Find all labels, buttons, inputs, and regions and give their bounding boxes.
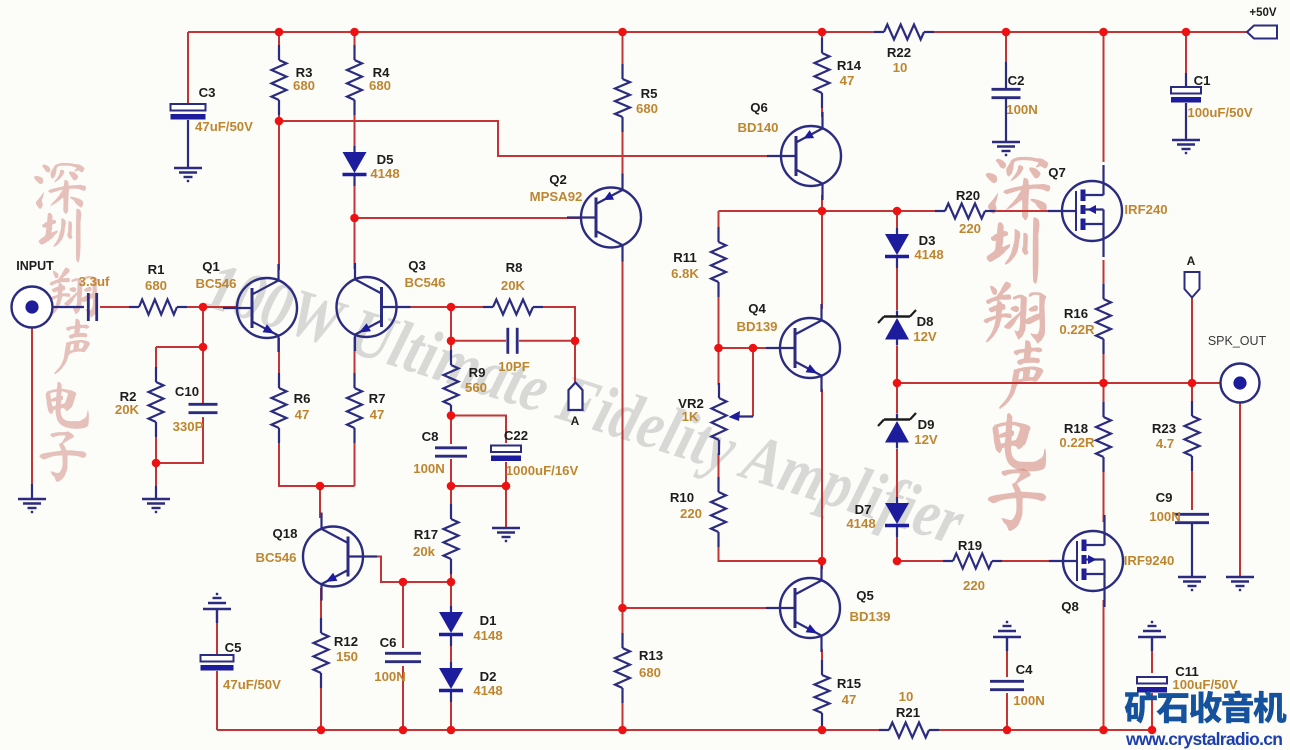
- svg-text:4148: 4148: [473, 683, 502, 698]
- svg-text:R6: R6: [294, 391, 311, 406]
- wire node to R19: [897, 560, 949, 562]
- flag node A (left): [569, 383, 583, 429]
- wire node to C6: [402, 582, 404, 648]
- ground (C5 flipped): [203, 594, 231, 623]
- wire R15 to bottom rail: [821, 718, 823, 730]
- svg-text:R11: R11: [673, 250, 696, 265]
- svg-text:47: 47: [840, 73, 855, 88]
- wire rail to R14: [821, 32, 823, 48]
- junction (506,486): [502, 482, 511, 491]
- junction (1152,730): [1148, 726, 1157, 735]
- wire Q6 collector to Q4 collector: [821, 195, 823, 309]
- svg-text:SPK_OUT: SPK_OUT: [1208, 334, 1267, 348]
- wire Q18 emitter to R12: [320, 588, 322, 630]
- svg-text:Q2: Q2: [549, 172, 567, 187]
- svg-text:BC546: BC546: [195, 276, 236, 291]
- wire node to Q5 base: [623, 607, 781, 609]
- resistor R5: [615, 64, 658, 132]
- wire D1 to D2: [450, 641, 452, 662]
- wire R10 to lower bias node: [719, 537, 823, 561]
- svg-text:www.crystalradio.cn: www.crystalradio.cn: [1125, 729, 1283, 749]
- wire Q3 base to feedback node: [397, 306, 452, 308]
- wire R2 node to ground: [155, 486, 157, 499]
- ground (C3): [174, 168, 202, 181]
- svg-text:100N: 100N: [374, 669, 406, 684]
- power flag +50V: [1247, 7, 1277, 39]
- svg-text:100N: 100N: [413, 461, 445, 476]
- wire gnd node down: [155, 463, 157, 487]
- svg-text:4148: 4148: [846, 516, 875, 531]
- svg-text:3.3uf: 3.3uf: [79, 274, 110, 289]
- wire D5 to Q3 collector: [354, 180, 356, 269]
- svg-text:220: 220: [963, 578, 985, 593]
- wire C1 to ground: [1185, 103, 1187, 140]
- svg-text:Q1: Q1: [202, 259, 220, 274]
- svg-text:20k: 20k: [413, 544, 436, 559]
- svg-text:4148: 4148: [370, 166, 399, 181]
- wire Q7 source to R16: [1103, 260, 1105, 294]
- svg-text:+50V: +50V: [1249, 7, 1277, 19]
- wire rail to Q7 drain: [1103, 32, 1105, 162]
- wire node down to R9: [450, 307, 452, 361]
- svg-text:MPSA92: MPSA92: [530, 189, 583, 204]
- wire flipped ground to C11: [1151, 638, 1153, 673]
- wire R17 to Q18 base node: [450, 564, 452, 582]
- wire driver node to R20: [822, 210, 941, 212]
- junction (622.5,32): [618, 28, 627, 37]
- svg-text:R13: R13: [639, 648, 663, 663]
- junction (1103.5,383): [1099, 379, 1108, 388]
- junction (451,730): [447, 726, 456, 735]
- wire D8 to output node: [896, 346, 898, 383]
- junction (822,730): [818, 726, 827, 735]
- svg-text:0.22R: 0.22R: [1059, 435, 1095, 450]
- wire R20 to Q7 gate: [989, 210, 1062, 212]
- transistor Q18: [255, 513, 377, 601]
- wire R9 to C8: [450, 409, 452, 444]
- svg-text:C4: C4: [1016, 662, 1034, 677]
- wire VR2 wiper to Q4 base node: [752, 348, 754, 417]
- wire top +50V rail right part: [924, 31, 1248, 33]
- svg-text:BD139: BD139: [849, 609, 890, 624]
- wire R8 to node A flag: [537, 307, 575, 383]
- wire R4 to D5: [354, 104, 356, 147]
- svg-text:150: 150: [336, 649, 358, 664]
- svg-text:R23: R23: [1152, 421, 1176, 436]
- svg-text:IRF9240: IRF9240: [1124, 553, 1175, 568]
- wire node to Q5 collector: [821, 561, 823, 569]
- wire rail to C3: [187, 32, 189, 104]
- wire node to R17: [450, 486, 452, 514]
- svg-text:Q4: Q4: [748, 301, 766, 316]
- resistor R8: [483, 260, 543, 315]
- svg-text:680: 680: [639, 665, 661, 680]
- svg-text:680: 680: [369, 78, 391, 93]
- capacitor C_in: [79, 274, 110, 321]
- svg-text:47: 47: [295, 407, 310, 422]
- junction (451,486): [447, 482, 456, 491]
- svg-text:Q6: Q6: [750, 100, 768, 115]
- wire node to D1: [450, 582, 452, 606]
- potentiometer VR2: [678, 383, 753, 455]
- wire rail to R3: [278, 32, 280, 56]
- svg-text:C22: C22: [504, 428, 528, 443]
- svg-text:680: 680: [293, 78, 315, 93]
- ground (SPK_OUT): [1226, 577, 1254, 590]
- svg-text:220: 220: [959, 221, 981, 236]
- resistor R3: [272, 45, 316, 115]
- wire C8 bottom to node: [450, 459, 452, 486]
- resistor R22: [874, 25, 934, 76]
- junction (718.5,348): [714, 344, 723, 353]
- junction (897,383): [893, 379, 902, 388]
- svg-text:10PF: 10PF: [498, 359, 530, 374]
- transistor Q1: [195, 259, 297, 352]
- junction (451,582): [447, 578, 456, 587]
- resistor R16: [1059, 284, 1111, 354]
- junction (451,415.5): [447, 411, 456, 420]
- diode D7: [846, 497, 909, 537]
- wire rail to C1: [1185, 32, 1187, 87]
- svg-text:R10: R10: [670, 490, 694, 505]
- wire flipped ground to C5: [216, 612, 218, 655]
- resistor R15: [815, 660, 862, 728]
- watermark chinese column left (深圳翔声电子): [34, 163, 98, 482]
- svg-text:47: 47: [370, 407, 385, 422]
- svg-text:BC546: BC546: [255, 550, 296, 565]
- svg-text:IRF240: IRF240: [1124, 202, 1167, 217]
- wire to C22 top: [451, 416, 506, 444]
- junction (1007,730): [1003, 726, 1012, 735]
- resistor R6: [272, 373, 311, 443]
- svg-text:R7: R7: [369, 391, 386, 406]
- wire output node to R18: [1103, 383, 1105, 412]
- svg-text:Q18: Q18: [273, 526, 298, 541]
- wire C22 bottom to node: [505, 462, 507, 486]
- wire R16 to output node: [1103, 344, 1105, 383]
- wire output line to SPK_OUT: [897, 382, 1221, 384]
- junction (279,121): [275, 117, 284, 126]
- wire node to C10: [202, 347, 204, 403]
- wire corner to R2: [155, 347, 157, 377]
- diode D3: [885, 228, 944, 268]
- resistor R9: [444, 350, 488, 420]
- wire D5/Q3 node to Q2 base: [355, 217, 582, 219]
- wire: [31, 484, 33, 499]
- resistor R1: [129, 262, 187, 315]
- svg-text:680: 680: [145, 278, 167, 293]
- wire node to R2/C10 node: [202, 307, 204, 347]
- resistor R4: [347, 45, 391, 115]
- capacitor C10: [173, 384, 218, 434]
- wire bottom rail right part: [938, 729, 1152, 731]
- wire VR2 to R10: [718, 453, 720, 479]
- junction (403,582): [399, 578, 408, 587]
- wire R14 to Q6 emitter: [821, 98, 823, 117]
- wire R2 to gnd node: [155, 427, 157, 463]
- svg-text:R20: R20: [956, 188, 980, 203]
- junction (321,730): [317, 726, 326, 735]
- capacitor C_ff: [498, 328, 530, 374]
- MOSFET Q8: [1049, 515, 1174, 614]
- wire node A flag to output line: [1191, 297, 1193, 383]
- wire C4 to bottom rail: [1006, 693, 1008, 730]
- ground (C4 flipped): [993, 622, 1021, 651]
- svg-text:100uF/50V: 100uF/50V: [1187, 105, 1252, 120]
- resistor R7: [347, 373, 385, 443]
- svg-text:BD140: BD140: [737, 120, 778, 135]
- svg-text:12V: 12V: [914, 432, 938, 447]
- resistor R20: [935, 188, 995, 236]
- wire R12 to bottom rail: [320, 680, 322, 730]
- resistor R10: [670, 477, 726, 547]
- svg-text:C8: C8: [422, 429, 439, 444]
- junction (354.5,218): [350, 214, 359, 223]
- svg-text:R9: R9: [469, 365, 486, 380]
- wire rail to C2: [1005, 32, 1007, 86]
- wire R3 to Q1 collector: [278, 104, 280, 270]
- junction (753,348): [749, 344, 758, 353]
- svg-text:D8: D8: [917, 314, 934, 329]
- wire rail to R4: [354, 32, 356, 56]
- svg-text:R16: R16: [1064, 306, 1088, 321]
- wire C10 bottom to gnd node: [156, 417, 203, 463]
- svg-text:100N: 100N: [1013, 693, 1045, 708]
- wire rail to R5: [622, 32, 624, 74]
- wire D7 to lower bias node: [896, 531, 898, 561]
- svg-text:R17: R17: [414, 527, 438, 542]
- svg-text:C10: C10: [175, 384, 199, 399]
- resistor R2: [115, 367, 164, 437]
- wire C3 to ground: [187, 120, 189, 168]
- wire 10PF right to A column: [519, 340, 575, 342]
- wire SPK_OUT to ground: [1239, 402, 1241, 577]
- wire to ground: [505, 486, 507, 528]
- resistor R14: [815, 38, 862, 108]
- svg-text:C1: C1: [1194, 73, 1211, 88]
- svg-text:Q7: Q7: [1048, 165, 1066, 180]
- logo crystalradio (矿石收音机): [1125, 690, 1287, 723]
- junction (1103.5,32): [1099, 28, 1108, 37]
- junction (622.5,608): [618, 604, 627, 613]
- svg-text:4148: 4148: [914, 247, 943, 262]
- wire D2 to bottom rail: [450, 697, 452, 730]
- capacitor C2: [992, 73, 1038, 117]
- wire flipped ground to C4: [1006, 638, 1008, 677]
- resistor R12: [314, 618, 359, 688]
- ground (input): [18, 499, 46, 512]
- svg-text:Q8: Q8: [1061, 599, 1079, 614]
- capacitor C5 (electrolytic): [201, 640, 282, 692]
- capacitor C9: [1149, 490, 1209, 524]
- svg-text:Q3: Q3: [408, 258, 426, 273]
- wire C11 to bottom rail: [1151, 693, 1153, 730]
- svg-text:C5: C5: [225, 640, 242, 655]
- junction (822,561): [818, 557, 827, 566]
- capacitor C22 (electrolytic): [491, 428, 578, 478]
- transistor Q3: [337, 258, 446, 351]
- wire top +50V rail left part: [188, 31, 884, 33]
- MOSFET Q7: [1048, 165, 1168, 257]
- wire node to R8: [451, 306, 489, 308]
- svg-text:R1: R1: [148, 262, 165, 277]
- svg-text:100N: 100N: [1006, 102, 1038, 117]
- svg-text:20K: 20K: [501, 278, 526, 293]
- watermark "100W Ultimate Fidelity Amplifier": [197, 247, 973, 560]
- svg-text:BD139: BD139: [736, 319, 777, 334]
- junction (575,340.8): [571, 337, 580, 346]
- wire Q4 emitter down: [821, 389, 823, 561]
- capacitor C1 (electrolytic): [1171, 73, 1253, 120]
- resistor R13: [615, 633, 663, 703]
- wire Q8 source to bottom rail: [1103, 600, 1105, 730]
- wire R7 bottom: [354, 433, 356, 486]
- svg-text:47uF/50V: 47uF/50V: [223, 677, 281, 692]
- ground (C2): [992, 142, 1020, 155]
- wire C8/C22 bottom link: [451, 485, 506, 487]
- wire node to R13: [622, 612, 624, 643]
- wire Q2 collector down to Q5 base node: [622, 258, 624, 608]
- wire node to VR2: [718, 348, 720, 385]
- svg-text:R5: R5: [641, 86, 658, 101]
- wire corner to R11: [718, 211, 720, 237]
- svg-text:R14: R14: [837, 58, 862, 73]
- svg-text:D5: D5: [377, 152, 394, 167]
- junction (822,211): [818, 207, 827, 216]
- svg-text:BC546: BC546: [404, 275, 445, 290]
- svg-text:4.7: 4.7: [1156, 436, 1174, 451]
- svg-text:47uF/50V: 47uF/50V: [195, 119, 253, 134]
- svg-text:R15: R15: [837, 676, 861, 691]
- logo url www.crystalradio.cn: [1125, 729, 1283, 749]
- junction (897,561): [893, 557, 902, 566]
- svg-text:D2: D2: [480, 669, 497, 684]
- junction (279,32): [275, 28, 284, 37]
- svg-text:10: 10: [899, 689, 914, 704]
- junction (203,347): [199, 343, 208, 352]
- connector SPK_OUT: [1221, 364, 1260, 403]
- svg-text:A: A: [1187, 254, 1196, 268]
- svg-text:4148: 4148: [473, 628, 502, 643]
- svg-text:12V: 12V: [913, 329, 937, 344]
- svg-text:220: 220: [680, 506, 702, 521]
- wire Q3 emitter to R7: [354, 337, 356, 383]
- svg-text:6.8K: 6.8K: [671, 266, 699, 281]
- svg-text:100N: 100N: [1149, 509, 1181, 524]
- wire Q5 emitter to R15: [821, 649, 823, 670]
- capacitor C3 (electrolytic): [171, 85, 254, 134]
- wire R23 to C9: [1191, 461, 1193, 510]
- wire R13 to bottom rail: [622, 693, 624, 730]
- svg-text:C9: C9: [1156, 490, 1173, 505]
- wire R11 to Q4 base node: [718, 287, 720, 348]
- junction (156,463): [152, 459, 161, 468]
- wire C5 to bottom rail: [216, 671, 218, 730]
- wire D3 to D8: [896, 262, 898, 310]
- svg-text:330P: 330P: [173, 419, 204, 434]
- wire bottom rail left part: [217, 729, 880, 731]
- svg-text:D9: D9: [918, 417, 935, 432]
- wire D9 to D7: [896, 449, 898, 497]
- wire Q18 base to node: [363, 557, 451, 583]
- wire Q1 emitter to R6: [278, 338, 280, 383]
- diode D5: [343, 146, 400, 186]
- svg-text:R12: R12: [334, 634, 358, 649]
- resistor R17: [413, 504, 459, 574]
- wire input connector to ground: [31, 327, 33, 485]
- svg-text:R19: R19: [958, 538, 982, 553]
- wire node to D3: [896, 211, 898, 228]
- svg-text:1K: 1K: [682, 409, 699, 424]
- zener diode D9: [878, 413, 938, 449]
- junction (203,307): [199, 303, 208, 312]
- junction (822,32): [818, 28, 827, 37]
- junction (1192,383): [1188, 379, 1197, 388]
- junction (1006,32): [1002, 28, 1011, 37]
- junction (403,730): [399, 726, 408, 735]
- wire output line to R23: [1191, 383, 1193, 411]
- svg-text:560: 560: [465, 380, 487, 395]
- watermark chinese column right (深圳翔声电子): [984, 157, 1051, 531]
- ground (C1): [1172, 140, 1200, 153]
- wire C1 top lead: [1185, 73, 1187, 88]
- svg-text:20K: 20K: [115, 402, 140, 417]
- resistor R19: [943, 538, 1002, 593]
- svg-text:R18: R18: [1064, 421, 1088, 436]
- capacitor C6: [374, 635, 421, 684]
- wire C2 top lead: [1005, 62, 1007, 90]
- ground (C8/C22): [492, 528, 520, 541]
- wire node to Q4 base: [719, 347, 781, 349]
- svg-text:R22: R22: [887, 45, 911, 60]
- junction (1186,32): [1182, 28, 1191, 37]
- svg-text:D3: D3: [919, 233, 936, 248]
- ground (R2/C10): [142, 499, 170, 512]
- wire R1 to Q1 base: [180, 306, 237, 308]
- svg-text:R21: R21: [896, 705, 920, 720]
- resistor R11: [671, 227, 726, 297]
- wire to R2: [156, 346, 203, 348]
- svg-text:Q5: Q5: [856, 588, 874, 603]
- capacitor C8: [413, 429, 467, 476]
- wire input cap to R1: [100, 306, 137, 308]
- resistor R23: [1152, 401, 1200, 471]
- svg-text:D7: D7: [855, 502, 872, 517]
- wire to 10PF left: [451, 340, 506, 342]
- svg-text:680: 680: [636, 101, 658, 116]
- junction (354.5,32): [350, 28, 359, 37]
- junction (451,307): [447, 303, 456, 312]
- transistor Q2: [530, 172, 641, 262]
- wire R18 to Q8 drain: [1103, 462, 1105, 522]
- junction (622.5,730): [618, 726, 627, 735]
- svg-text:C3: C3: [199, 85, 216, 100]
- capacitor C11 (electrolytic): [1137, 664, 1238, 693]
- wire connector to input cap: [52, 306, 84, 308]
- wire R19 to Q8 gate: [997, 560, 1062, 562]
- wire C9 to ground: [1191, 524, 1193, 577]
- diode D1: [439, 606, 503, 646]
- ground (C9): [1178, 577, 1206, 590]
- resistor R18: [1059, 402, 1111, 472]
- transistor Q5: [766, 564, 891, 652]
- svg-text:47: 47: [842, 692, 857, 707]
- wire R6 bottom / tail rail: [279, 433, 355, 486]
- svg-text:A: A: [571, 414, 580, 428]
- wire R11 top to driver node: [719, 210, 823, 212]
- junction (897,211): [893, 207, 902, 216]
- junction (320,486): [316, 482, 325, 491]
